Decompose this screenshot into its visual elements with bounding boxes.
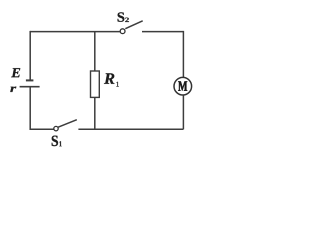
switch S1 circle: [54, 126, 58, 130]
label S1 "S": [52, 136, 58, 147]
wire top-right segment (S2 to top-right corner): [142, 31, 183, 33]
label S1 subscript 1: [59, 141, 61, 146]
label E: [11, 68, 20, 77]
label r: [10, 87, 16, 92]
wire middle branch lower (R1 box down to bottom wire): [94, 97, 96, 129]
wire left side upper (top-left corner down to battery): [29, 31, 31, 80]
battery short plate: [26, 79, 34, 81]
switch S1 blade: [58, 120, 77, 128]
motor M circle: [174, 77, 192, 95]
wire right side upper (top-right corner down to motor): [182, 31, 184, 77]
wire left side lower (battery down to bottom-left corner): [30, 87, 54, 129]
battery long plate: [20, 86, 40, 88]
motor M letter: [178, 81, 187, 90]
wire middle branch upper (top wire down to R1 box): [94, 32, 96, 71]
label S2 "S": [118, 12, 125, 21]
switch S2 circle: [120, 29, 125, 34]
resistor R1 box: [91, 71, 100, 97]
wire bottom segment (S1 to bottom-right corner): [78, 128, 183, 130]
wire right side lower (motor down to bottom-right corner): [182, 95, 184, 129]
label R1 subscript 1: [116, 82, 118, 87]
switch S2 blade: [125, 21, 142, 29]
label S2 subscript 2: [125, 18, 129, 22]
wire top-left segment (top-left corner to S2 circle): [30, 31, 120, 33]
label R1 "R": [104, 73, 114, 83]
